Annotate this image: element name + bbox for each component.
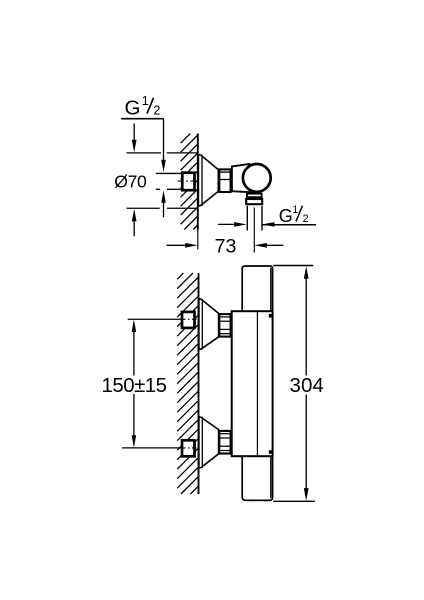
label diameter 70	[114, 171, 147, 191]
screw lower	[269, 450, 272, 454]
outlet tube	[247, 206, 262, 231]
label 304	[290, 374, 324, 397]
tube centerline extension	[253, 208, 255, 253]
extension line 304 top	[273, 265, 313, 267]
dimension line 73 left part	[167, 243, 198, 248]
extension line top of escutcheon	[127, 152, 199, 154]
leader line under G 1/2	[121, 118, 164, 120]
centerline of wall connection	[178, 180, 198, 182]
extension line lower connection	[122, 447, 181, 449]
up arrow to pipe bottom (G 1/2)	[161, 190, 166, 217]
leader vertical with down arrow to pipe	[161, 119, 166, 173]
escutcheon cone (top figure)	[198, 155, 218, 206]
wall face line (bottom figure)	[198, 273, 200, 494]
svg-text:304: 304	[290, 374, 324, 397]
dimension arrow lower (diameter 70)	[132, 209, 137, 236]
svg-text:1: 1	[292, 204, 298, 216]
label G 1/2 (outlet)	[279, 204, 309, 226]
supply pipe stub	[156, 173, 182, 189]
outlet adapter bands	[246, 194, 262, 205]
union nut (top figure)	[219, 169, 231, 192]
threaded nipple in wall	[182, 173, 194, 191]
dimension 304 upper arrow	[304, 266, 309, 375]
shower mixer upper pipe section	[242, 266, 272, 312]
shower mixer lower pipe section	[242, 456, 272, 501]
label G 1/2 (top left)	[125, 94, 161, 120]
arrow right to tube (G 1/2 outlet)	[218, 222, 247, 227]
svg-text:2: 2	[303, 213, 309, 225]
dimension 150 lower arrow	[132, 394, 137, 448]
dimension 304 lower arrow	[304, 395, 309, 501]
union nut upper	[219, 314, 231, 337]
svg-text:G: G	[279, 206, 293, 226]
body front edge line	[256, 312, 258, 456]
wall face line (top figure)	[197, 134, 199, 230]
extension line bottom of escutcheon	[127, 207, 199, 209]
thermostat body block	[232, 311, 273, 456]
svg-text:G: G	[125, 96, 141, 119]
centerline upper nipple	[181, 318, 198, 320]
svg-text:2: 2	[153, 104, 160, 118]
arrow left to tube with leader (G 1/2 outlet)	[262, 222, 316, 227]
extension line upper connection	[128, 318, 181, 320]
threaded nipple lower	[182, 440, 195, 456]
union nut lower	[219, 431, 231, 454]
threaded nipple upper	[182, 312, 195, 328]
dimension 150 plus/minus 15 upper arrow	[132, 320, 137, 376]
thermostat valve body circle	[243, 164, 271, 192]
elbow housing	[232, 164, 253, 192]
centerline lower nipple	[181, 447, 198, 449]
escutcheon cone upper	[199, 299, 219, 350]
screw upper	[269, 314, 272, 318]
svg-text:1: 1	[142, 94, 149, 108]
extension line 304 bottom	[273, 500, 315, 502]
dimension line 73 right part	[254, 243, 283, 248]
wall hatching (bottom figure)	[177, 273, 198, 494]
wall face extension for 73	[197, 230, 199, 250]
svg-text:150±15: 150±15	[102, 375, 167, 397]
label 150 plus/minus 15	[102, 375, 167, 397]
dimension arrow upper (diameter 70)	[132, 124, 137, 153]
label 73	[215, 235, 237, 257]
escutcheon cone lower	[199, 417, 219, 468]
wall hatching (top figure)	[181, 134, 198, 230]
svg-text:Ø70: Ø70	[114, 171, 147, 191]
svg-text:73: 73	[215, 235, 237, 257]
